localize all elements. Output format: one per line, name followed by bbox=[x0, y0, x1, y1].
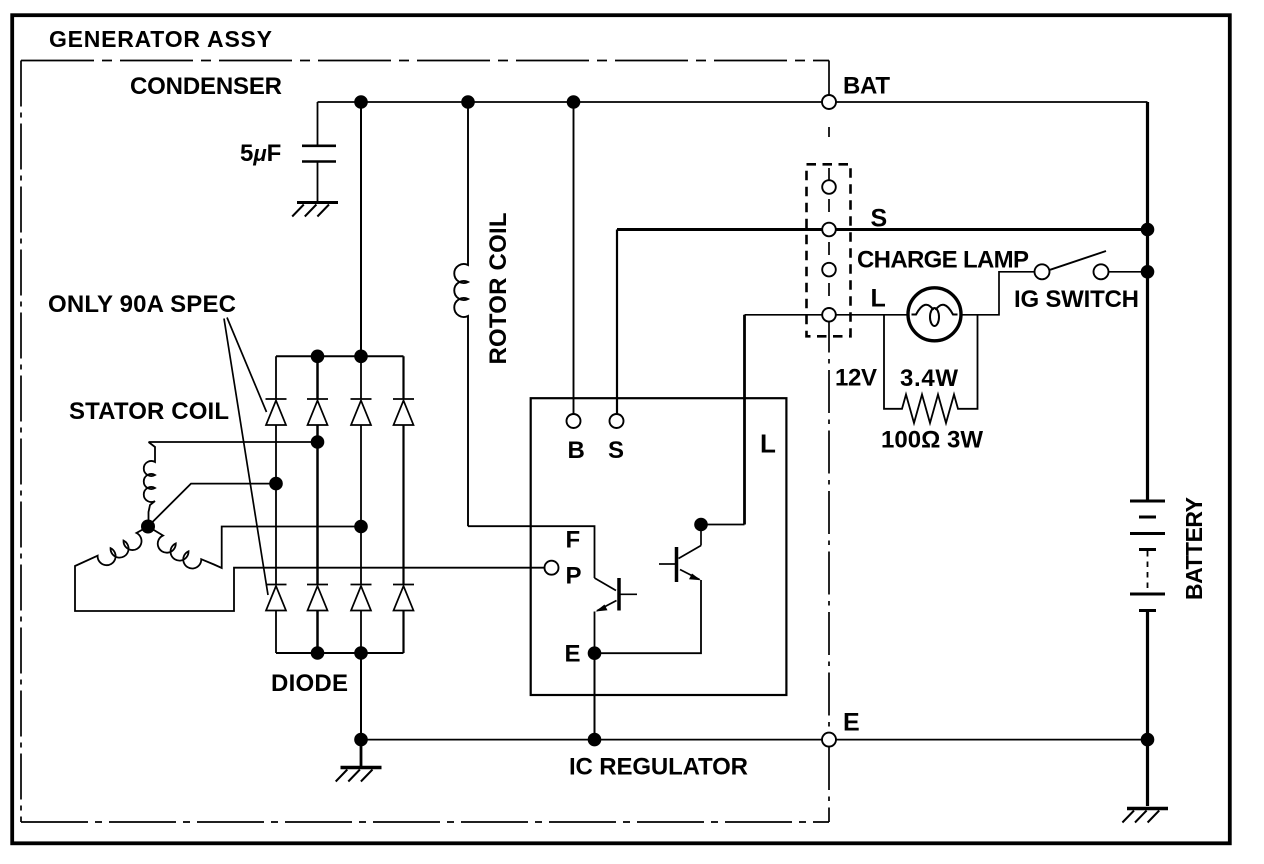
generator assy dash-dot boundary bbox=[21, 61, 829, 823]
svg-text:L: L bbox=[760, 429, 776, 459]
svg-text:CONDENSER: CONDENSER bbox=[130, 73, 282, 100]
node rail/column3 junction bbox=[354, 350, 368, 364]
node junction top wire / bridge riser bbox=[354, 95, 368, 109]
diode D2 top bbox=[307, 399, 328, 425]
node E rail junction bbox=[588, 733, 602, 747]
wire battery to ground bbox=[1146, 611, 1149, 807]
wire L vertical bbox=[743, 315, 746, 525]
diode D8 bottom bbox=[393, 585, 414, 611]
terminal S connector circle bbox=[822, 223, 836, 237]
svg-text:S: S bbox=[871, 205, 888, 233]
svg-text:DIODE: DIODE bbox=[271, 670, 348, 697]
diode D5 (90A spec bottom) bbox=[266, 585, 287, 611]
svg-text:E: E bbox=[565, 641, 581, 668]
leader line to 90A bottom diode bbox=[224, 319, 268, 596]
lamp charge lamp bbox=[908, 288, 961, 341]
svg-text:IG SWITCH: IG SWITCH bbox=[1014, 286, 1139, 313]
battery B1 bbox=[1130, 501, 1165, 611]
switch IG contact right circle bbox=[1094, 264, 1109, 279]
leader line to 90A top diode bbox=[227, 318, 267, 413]
diode D6 bottom bbox=[307, 585, 328, 611]
wire stator neutral to 90A diode column bbox=[148, 484, 276, 527]
inductor rotor coil bbox=[454, 102, 468, 526]
IC regulator box U1 bbox=[531, 398, 787, 695]
stator phase 3 winding (right) bbox=[148, 527, 361, 569]
node phase3/column3 junction bbox=[354, 520, 368, 534]
wire L lead inside regulator bbox=[701, 525, 745, 546]
wire battery feed vertical bbox=[1146, 102, 1149, 500]
wire E node to box bottom to E rail bbox=[594, 653, 596, 739]
diode D7 bottom bbox=[351, 585, 372, 611]
diode D3 top bbox=[351, 399, 372, 425]
node phase1/column2 junction bbox=[311, 435, 325, 449]
node Q2 collector / L junction bbox=[694, 518, 708, 532]
svg-text:ONLY 90A SPEC: ONLY 90A SPEC bbox=[48, 291, 236, 318]
wire L connector to lamp bbox=[836, 314, 909, 316]
diode column 3 wires bbox=[360, 356, 362, 653]
capacitor C1 condenser bbox=[302, 102, 336, 201]
wire E node to Q2 emitter bbox=[595, 580, 702, 653]
transistor Q2 bbox=[659, 546, 701, 583]
wire B terminal riser bbox=[573, 102, 575, 414]
node neutral/column1 junction bbox=[269, 477, 283, 491]
switch IG contact left circle bbox=[1035, 264, 1050, 279]
ground battery bbox=[1122, 809, 1168, 823]
svg-text:12V: 12V bbox=[835, 365, 877, 392]
node S wire / battery line junction bbox=[1141, 223, 1155, 237]
svg-text:S: S bbox=[608, 437, 624, 464]
stator phase 2 winding (left) bbox=[75, 527, 545, 612]
stator coil 3-phase winding bbox=[75, 442, 545, 611]
wire bridge riser bbox=[360, 102, 362, 356]
node bottom rail/column2 junction bbox=[311, 646, 325, 660]
wire L to connector bbox=[745, 314, 824, 316]
diode D4 top bbox=[393, 399, 414, 425]
svg-text:P: P bbox=[566, 563, 582, 590]
diode D1 (90A spec top) bbox=[266, 399, 287, 425]
terminal BAT circle bbox=[822, 95, 836, 109]
diode column 1 wires bbox=[275, 356, 277, 653]
svg-text:STATOR COIL: STATOR COIL bbox=[69, 398, 229, 425]
wire bridge ground drop bbox=[360, 653, 362, 740]
resistor R1 100 ohm bbox=[884, 315, 978, 423]
svg-text:IC REGULATOR: IC REGULATOR bbox=[569, 754, 748, 781]
svg-text:L: L bbox=[871, 285, 886, 313]
node E rail / battery ground junction bbox=[1141, 733, 1155, 747]
svg-text:B: B bbox=[568, 437, 585, 464]
wire B+ top rail bbox=[318, 101, 1148, 103]
pin B terminal circle bbox=[567, 414, 581, 428]
transistor Q1 bbox=[595, 578, 638, 611]
diode bridge rails bbox=[276, 356, 404, 653]
wire Q1 emitter to E node bbox=[594, 612, 596, 654]
wire lamp to switch riser bbox=[961, 272, 1034, 315]
stator phase 1 winding (top) bbox=[144, 442, 155, 527]
diode column 2 wires bbox=[316, 356, 319, 653]
svg-text:GENERATOR ASSY: GENERATOR ASSY bbox=[49, 26, 272, 52]
svg-text:F: F bbox=[566, 527, 581, 554]
pin S terminal circle bbox=[610, 414, 624, 428]
node rail/column2 junction bbox=[311, 350, 325, 364]
svg-text:CHARGE LAMP: CHARGE LAMP bbox=[857, 247, 1029, 274]
svg-text:ROTOR COIL: ROTOR COIL bbox=[485, 213, 512, 365]
switch IG blade bbox=[1050, 251, 1106, 270]
node junction top wire / B terminal bbox=[567, 95, 581, 109]
node E junction in regulator bbox=[588, 646, 602, 660]
pin P terminal circle bbox=[545, 561, 559, 575]
node bridge ground / E wire junction bbox=[354, 733, 368, 747]
node junction top wire / rotor coil bbox=[461, 95, 475, 109]
terminal connector pin 3 circle bbox=[822, 263, 836, 277]
wire S thick from connector to regulator bbox=[617, 228, 1146, 231]
node bottom rail/column3 junction bbox=[354, 646, 368, 660]
node stator neutral junction bbox=[141, 520, 155, 534]
svg-text:BATTERY: BATTERY bbox=[1181, 497, 1207, 600]
wire stator phase 1 to diode column 2 bbox=[149, 441, 318, 443]
ground condenser bbox=[292, 203, 338, 217]
svg-text:E: E bbox=[843, 709, 860, 737]
wire IG switch to battery line bbox=[1109, 271, 1148, 273]
svg-text:100Ω 3W: 100Ω 3W bbox=[881, 427, 983, 454]
terminal L connector circle bbox=[822, 308, 836, 322]
wire E rail bbox=[361, 739, 1148, 741]
connector dashed box bbox=[807, 164, 851, 336]
terminal E circle bbox=[822, 733, 836, 747]
node IG wire / battery line junction bbox=[1141, 265, 1155, 279]
svg-text:BAT: BAT bbox=[843, 73, 890, 100]
terminal connector pin 1 circle bbox=[822, 180, 836, 194]
wire F lead from rotor coil to regulator bbox=[468, 526, 595, 578]
ground diode bridge bbox=[336, 746, 382, 782]
wire S drop to regulator bbox=[616, 230, 618, 415]
diode column 4 wires bbox=[402, 356, 404, 653]
svg-text:5μF: 5μF bbox=[240, 140, 281, 167]
svg-text:3.4W: 3.4W bbox=[900, 365, 958, 392]
